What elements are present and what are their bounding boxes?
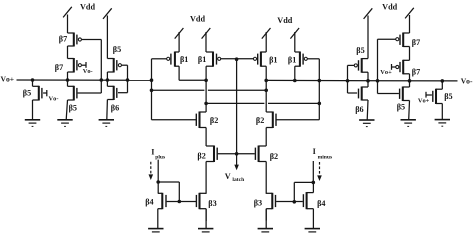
svg-text:β5: β5 — [444, 92, 452, 101]
svg-text:Vо-: Vо- — [83, 68, 93, 75]
wire (cross-couple line y=90.3) — [152, 89, 267, 91]
wire (gate of fourth B1 to right latch node) — [308, 58, 320, 60]
wire (right mirror gate line) — [276, 201, 303, 203]
wire (right latch node vertical x=319.3) — [318, 59, 320, 120]
input label Iplus — [151, 147, 166, 160]
wire (cross-couple line y=103.4) — [206, 102, 319, 104]
transistor B5 under-B7 (NMOS) — [68, 86, 77, 101]
node (B4-B3 gate tie, left) — [178, 200, 182, 204]
transistor B2 upper-right (NMOS) — [266, 112, 276, 129]
wire (Vlatch arrow stub) — [234, 154, 239, 170]
transistor B1 second (PMOS) — [206, 52, 221, 67]
node (right latch node / rail) — [318, 79, 322, 83]
Vdd supply symbol (right block) — [405, 8, 414, 33]
svg-text:β5: β5 — [397, 103, 405, 112]
svg-text:β1: β1 — [180, 55, 188, 64]
svg-text:β5: β5 — [113, 45, 121, 54]
transistor B5 diode (PMOS, left bias) — [107, 58, 121, 73]
wire (left B3 source lead) — [205, 209, 207, 229]
svg-text:β2: β2 — [256, 116, 264, 125]
svg-text:β6: β6 — [355, 105, 363, 114]
transistor B2 lower-left (NMOS, latch clock) — [206, 146, 217, 163]
svg-text:β5: β5 — [69, 104, 77, 113]
node (right chain / cross line y=90.3) — [264, 89, 268, 93]
wire (lower B2 gate line) — [218, 153, 255, 155]
wire (left latch node vertical x=151.5) — [151, 59, 153, 120]
wire (B6 drain+source leads) — [106, 80, 109, 120]
svg-text:minus: minus — [318, 154, 333, 160]
wire (gate of first B1 to left latch node) — [152, 58, 167, 60]
transistor B2 upper-left (NMOS) — [196, 112, 206, 129]
Vdd supply symbol (left block) — [63, 7, 72, 33]
svg-text:Vdd: Vdd — [190, 14, 205, 23]
transistor B5 far-left (NMOS, gate Vo-) — [33, 86, 42, 101]
node (rail / left B5 drain) — [31, 78, 35, 82]
ground (under right B6) — [359, 120, 374, 127]
node (B3-B4 gate tie, right) — [293, 200, 297, 204]
transistor B5 under-B7 right (NMOS) — [400, 87, 410, 102]
svg-text:latch: latch — [232, 177, 245, 183]
svg-text:β4: β4 — [145, 198, 153, 207]
svg-text:β4: β4 — [317, 199, 325, 208]
transistor B4 right (NMOS diode) — [303, 192, 313, 209]
wire (Vdd riser to right bias PMOS) — [364, 8, 373, 58]
svg-text:β1: β1 — [288, 56, 296, 65]
transistor B3 right (NMOS) — [266, 193, 275, 209]
wire (Vlatch vertical) — [236, 59, 238, 154]
node (left chain / cross line y=103.4) — [204, 102, 208, 106]
node (Iplus / B4 drain / mirror gate wire) — [156, 180, 160, 184]
svg-text:β5: β5 — [23, 89, 31, 98]
wire (first B1 drain elbow) — [179, 66, 206, 80]
svg-text:β6: β6 — [111, 104, 119, 113]
svg-text:I: I — [151, 147, 154, 156]
transistor B7 second-left (PMOS, gate Vo-) — [68, 58, 82, 73]
transistor B5 right bias (PMOS) — [354, 58, 368, 73]
node (inner B1 gates / Vlatch wire) — [235, 57, 239, 61]
svg-text:V: V — [225, 172, 231, 181]
svg-text:I: I — [313, 147, 316, 156]
svg-text:β2: β2 — [210, 116, 218, 125]
transistor B7 top-right (PMOS) — [396, 33, 410, 48]
transistor B5 far-right (NMOS, gate Vo+) — [433, 89, 443, 104]
svg-text:β3: β3 — [208, 199, 216, 208]
transistor B3 left (NMOS) — [196, 193, 206, 209]
svg-text:Vdd: Vdd — [277, 16, 292, 25]
svg-text:Vо+: Vо+ — [380, 69, 392, 76]
wire (right B6 drain+source leads) — [366, 81, 369, 120]
wire (gate of top B7 to Vo+ rail) — [82, 40, 102, 81]
svg-text:plus: plus — [155, 154, 166, 160]
wire (gate of under-B7 B5 up to rail node) — [78, 80, 102, 93]
wire (gate of top-right B7 to Vo- rail) — [378, 39, 399, 93]
node (rail / right B7 stack) — [408, 79, 412, 83]
node (rail / B7 gate wire) — [100, 78, 104, 82]
node (left output chain / B1 drains) — [204, 79, 208, 83]
ground (under B6) — [99, 120, 114, 127]
svg-text:Vdd: Vdd — [80, 2, 95, 11]
node (Vlatch / lower B2 gates) — [235, 152, 239, 156]
Vdd supply symbol (mid-left pair) — [175, 28, 211, 52]
node (rail / diode B5-B6 drains) — [106, 78, 110, 82]
wire (Iplus node to mirror gates) — [158, 182, 179, 202]
wire (left mirror gate line) — [167, 201, 197, 203]
wire (diode gate wire down to rail and B6 gate) — [118, 65, 128, 93]
node (rail / right B7 gate wire) — [376, 79, 380, 83]
wire (gate lead stub second-right B7) — [392, 64, 396, 70]
wire (Iminus node to mirror gates) — [294, 182, 313, 201]
ground (far-left) — [25, 120, 40, 127]
current arrow (Iminus) — [317, 162, 322, 181]
transistor B4 left (NMOS diode) — [158, 193, 166, 209]
svg-text:β7: β7 — [412, 38, 420, 47]
wire (gate lead stub far-left B5) — [43, 90, 47, 96]
svg-text:β1: β1 — [198, 55, 206, 64]
node (right latch node / cross line) — [318, 102, 322, 106]
wire (right B7 stack links) — [409, 47, 411, 81]
svg-text:Vdd: Vdd — [382, 2, 397, 11]
wire (output rail, middle to right) — [266, 79, 457, 82]
wire (right B4 drain+source leads) — [312, 182, 314, 228]
wire (gate of third B1 to Vlatch node) — [237, 58, 254, 60]
input label Iminus — [313, 147, 333, 160]
wire (far-right B5 drain+source leads) — [441, 81, 443, 120]
wire (right B3 source lead) — [265, 209, 267, 229]
ground (under left B4) — [148, 229, 163, 236]
wire (Iminus feed) — [312, 161, 314, 182]
current arrow (Iplus) — [149, 162, 154, 180]
wire (gate of upper-right B2 to right latch node) — [276, 119, 319, 121]
transistor B7 second-right (PMOS, gate Vo+) — [396, 60, 410, 75]
svg-text:β7: β7 — [59, 35, 67, 44]
wire (fourth B1 drain lead) — [294, 66, 296, 80]
ground (under right B4) — [305, 229, 320, 236]
wire (right under-B7 B5 leads) — [408, 81, 411, 120]
svg-text:Vо+: Vо+ — [0, 74, 14, 83]
ground (under B7 stack) — [57, 120, 72, 127]
svg-text:β3: β3 — [254, 198, 262, 207]
node (right chain / rail) — [264, 79, 268, 83]
wire (right bias diode gate wire) — [348, 65, 358, 93]
transistor B1 first (PMOS) — [167, 52, 179, 67]
ground (under far-right B5) — [435, 120, 450, 127]
node (rail / fourth B1 drain) — [293, 79, 297, 83]
node (rail / right bias drains) — [366, 79, 370, 83]
ground (under right B5) — [401, 120, 416, 127]
input label Vlatch — [225, 172, 245, 183]
transistor B1 fourth (PMOS) — [295, 52, 308, 67]
wire (Vdd riser to beta5 diode column) — [103, 8, 112, 58]
node (rail / B7 stack) — [66, 78, 70, 82]
node (rail / right bias gate wire) — [346, 79, 350, 83]
node (rail / far-right B5 drain) — [441, 79, 445, 83]
wire (Iplus feed) — [157, 160, 159, 182]
node (rail / B5-B6 gate wire) — [126, 78, 130, 82]
ground (under right B3) — [258, 229, 273, 236]
transistor B6 right (NMOS) — [359, 87, 369, 101]
wire (Vo+ rail, y=80) — [17, 79, 152, 81]
wire (right chain vertical x=266.2) — [265, 66, 267, 220]
wire (gate of second B1 to Vlatch node) — [221, 58, 237, 60]
Vdd supply symbol (mid-right pair) — [262, 28, 299, 52]
wire (right bias PMOS drain lead) — [367, 72, 369, 81]
transistor B6 (NMOS, left bias) — [107, 86, 116, 100]
node (left latch node / cross-couple line) — [150, 89, 154, 93]
node (left latch node / rail) — [150, 78, 154, 82]
transistor B1 third (PMOS) — [253, 52, 266, 67]
ground (under left B3) — [198, 229, 213, 236]
svg-text:β5: β5 — [356, 46, 364, 55]
svg-text:β1: β1 — [269, 56, 277, 65]
wire (left bias PMOS drain lead) — [106, 72, 108, 80]
wire (gate lead stub of second B7) — [82, 62, 86, 68]
wire (left B4 drain+source leads) — [157, 182, 159, 229]
svg-text:Vо-: Vо- — [461, 77, 473, 86]
svg-text:Vо-: Vо- — [49, 95, 59, 102]
wire (B7 stack drain-source links) — [67, 46, 69, 80]
svg-text:β7: β7 — [412, 67, 420, 76]
wire (gate lead stub far-right B5) — [426, 92, 432, 98]
svg-text:β7: β7 — [55, 63, 63, 72]
node (Iminus / B4 drain) — [312, 181, 316, 185]
wire (gate of upper-left B2 to left latch node) — [152, 119, 197, 121]
svg-text:Vо+: Vо+ — [418, 97, 430, 104]
wire (left chain vertical x=206) — [205, 66, 207, 221]
transistor B2 lower-right (NMOS, latch clock) — [255, 146, 266, 163]
svg-text:β2: β2 — [270, 152, 278, 161]
transistor B7 top-left (PMOS) — [68, 33, 82, 47]
wire (far-left B5 drain+source leads) — [32, 80, 34, 120]
svg-text:β2: β2 — [197, 152, 205, 161]
wire (under-B7 B5 drain+source leads) — [66, 80, 67, 120]
